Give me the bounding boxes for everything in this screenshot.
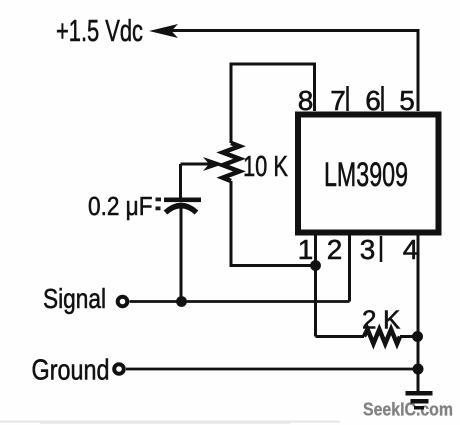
svg-text:+1.5 Vdc: +1.5 Vdc (56, 13, 143, 48)
node junction 2K/pin4 (412, 331, 423, 342)
svg-text:7: 7 (330, 85, 346, 116)
wire pin 4 down to ground (417, 233, 420, 392)
ground input terminal (114, 364, 124, 374)
wire potentiometer bottom to pin 1 (231, 181, 316, 266)
svg-text:2: 2 (327, 234, 343, 265)
node junction pin1/pot (310, 260, 321, 271)
svg-text:K: K (383, 305, 401, 335)
svg-text:SeekIC.com: SeekIC.com (363, 399, 453, 420)
resistor R2 2 K zigzag (364, 329, 400, 343)
svg-text:2: 2 (362, 305, 376, 335)
arrowhead at +1.5 Vdc supply (149, 24, 178, 38)
scan speck near capacitor (156, 198, 162, 202)
wire top rail from arrow to pin 5 corner (168, 31, 418, 112)
svg-text:Ground: Ground (32, 355, 110, 387)
svg-text:3: 3 (360, 234, 376, 265)
wire 2K to pin 4 (400, 335, 418, 338)
svg-text:10 K: 10 K (243, 151, 288, 183)
pin 6 stub (381, 86, 384, 111)
svg-text:8: 8 (298, 85, 314, 116)
capacitor C1 top plate (164, 198, 201, 203)
wire pin1 branch to 2K resistor (316, 335, 365, 338)
svg-text:LM3909: LM3909 (324, 156, 408, 194)
op IC U1 box (298, 115, 439, 233)
svg-text:Signal: Signal (43, 283, 106, 314)
wire pin 8 to potentiometer top (231, 64, 315, 143)
wire pin 2 to signal (348, 233, 351, 302)
node junction ground/pin4 (413, 364, 424, 375)
wire capacitor to signal line (180, 208, 183, 302)
svg-text:5: 5 (399, 85, 415, 116)
ground symbol (406, 391, 433, 396)
pin 7 stub (346, 86, 349, 111)
potentiometer R1 10 K zigzag (223, 143, 240, 181)
wire pin 1 down (314, 233, 317, 337)
wire wiper to capacitor top (179, 164, 182, 198)
capacitor C1 curved plate (166, 206, 197, 213)
scan smudge bottom edge (0, 421, 340, 423)
signal input terminal (118, 297, 128, 307)
wiper arrow of potentiometer (181, 163, 211, 166)
pin 3 stub (380, 236, 383, 262)
svg-text:0.2 μF: 0.2 μF (88, 193, 153, 221)
wire signal line (130, 300, 350, 303)
svg-text:4: 4 (403, 234, 419, 265)
node junction capacitor/signal (176, 296, 187, 307)
svg-text:6: 6 (365, 85, 381, 116)
svg-text:1: 1 (298, 234, 314, 265)
wire ground line (126, 368, 418, 371)
